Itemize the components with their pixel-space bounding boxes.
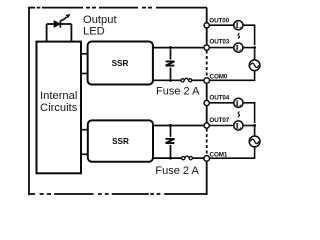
terminal COM1 <box>204 156 210 162</box>
AC source PS2 <box>249 136 260 147</box>
wire varistor 2 branch lower <box>170 145 172 158</box>
wire internal to U1 lower stub <box>81 73 88 75</box>
wire LED branch left vertical <box>46 24 48 42</box>
wire L4 to supply rail 2 <box>243 125 255 127</box>
wire OUT03 to load L2 <box>210 47 234 49</box>
junction at Z2 top <box>169 124 172 127</box>
wire internal to U2 upper stub <box>81 129 88 131</box>
load L3 <box>234 98 243 108</box>
load L4 <box>234 121 243 131</box>
junction load rail 2 <box>253 124 256 127</box>
junction at Z2 bottom <box>169 157 172 160</box>
wire varistor 2 branch upper <box>170 126 172 138</box>
svg-text:L: L <box>236 98 242 108</box>
svg-text:L: L <box>236 43 242 53</box>
SSR U1 (upper solid state relay) <box>88 42 153 85</box>
svg-text:LED: LED <box>83 25 105 37</box>
svg-text:OUT00: OUT00 <box>209 17 229 24</box>
svg-text:OUT07: OUT07 <box>209 117 229 124</box>
wire U1 output to OUT03 <box>153 47 204 49</box>
wire LED branch right vertical <box>70 24 72 42</box>
dashed continuation OUT07 to COM1 <box>206 129 208 156</box>
unit border top edge (dash-dot-dot) <box>29 7 208 9</box>
wire OUT04 to load L3 <box>210 102 234 104</box>
wire COM0 to OUT04 <box>206 84 208 101</box>
terminal OUT04 <box>204 100 209 105</box>
svg-text:OUT04: OUT04 <box>209 95 229 102</box>
wire internal to U1 upper stub <box>81 53 88 55</box>
wire internal to U2 lower stub <box>81 153 88 155</box>
svg-text:Circuits: Circuits <box>40 102 78 114</box>
LED D1 (output indicator diode) <box>54 14 70 28</box>
wire LED branch top <box>47 23 72 25</box>
unit border right edge solid segment below COM1 <box>206 162 208 196</box>
terminal OUT03 <box>204 45 209 50</box>
junction load rail 1 <box>253 46 256 49</box>
varistor Z1 <box>166 61 175 65</box>
wire U2 common to fuse F2 <box>153 157 182 159</box>
wire OUT07 to load L4 <box>210 125 234 127</box>
svg-text:Fuse 2 A: Fuse 2 A <box>156 85 200 97</box>
svg-text:SSR: SSR <box>112 137 129 146</box>
terminal COM0 <box>204 78 210 84</box>
SSR U2 (lower solid state relay) <box>88 120 153 161</box>
fuse F2 <box>182 156 193 160</box>
load L2 <box>234 43 243 53</box>
wire OUT00 to load L1 <box>210 24 234 26</box>
wire varistor branch upper <box>170 48 172 60</box>
wire rail 2 to AC source PS2 <box>254 126 256 137</box>
junction at Z1 top <box>169 46 172 49</box>
svg-text:OUT03: OUT03 <box>209 39 229 46</box>
wire L2 to supply rail <box>243 47 255 49</box>
wire L1 to supply rail <box>243 25 255 45</box>
wire OUT04 to OUT07 <box>206 106 208 124</box>
svg-text:L: L <box>236 121 242 131</box>
load L1 <box>234 20 243 30</box>
dashed continuation OUT03 to COM0 <box>206 51 208 78</box>
unit border bottom edge (dash-dot-dot) <box>29 193 208 195</box>
wire varistor branch lower <box>170 68 172 81</box>
wire fuse F2 to COM1 <box>192 157 204 159</box>
svg-text:COM1: COM1 <box>210 152 228 159</box>
wire PS1 to COM0 <box>210 71 255 81</box>
wire OUT00 to OUT03 <box>206 28 208 46</box>
wire fuse F1 to COM0 <box>191 79 203 81</box>
wire U1 common to fuse F1 <box>153 79 181 81</box>
svg-text:Internal: Internal <box>40 90 77 102</box>
continuation squiggle between L3 and L4 <box>238 112 240 117</box>
terminal OUT00 <box>204 23 209 28</box>
AC source PS1 <box>249 60 260 71</box>
svg-text:COM0: COM0 <box>210 74 228 81</box>
svg-text:L: L <box>236 20 242 30</box>
wire rail to AC source PS1 <box>254 48 256 60</box>
internal circuits block <box>37 42 82 174</box>
junction at Z1 bottom <box>169 79 172 82</box>
continuation squiggle between L1 and L2 <box>238 33 240 38</box>
svg-text:Fuse 2 A: Fuse 2 A <box>155 165 199 177</box>
unit border left edge <box>28 7 30 196</box>
fuse F1 <box>181 78 192 82</box>
wire PS2 to COM1 <box>210 147 255 159</box>
wire U2 output to OUT07 <box>153 125 204 127</box>
terminal OUT07 <box>204 123 209 128</box>
unit border right edge solid segment above OUT00 <box>206 8 208 23</box>
wire L3 to supply rail 2 <box>243 103 255 123</box>
svg-text:SSR: SSR <box>112 59 129 68</box>
varistor Z2 <box>166 139 175 143</box>
